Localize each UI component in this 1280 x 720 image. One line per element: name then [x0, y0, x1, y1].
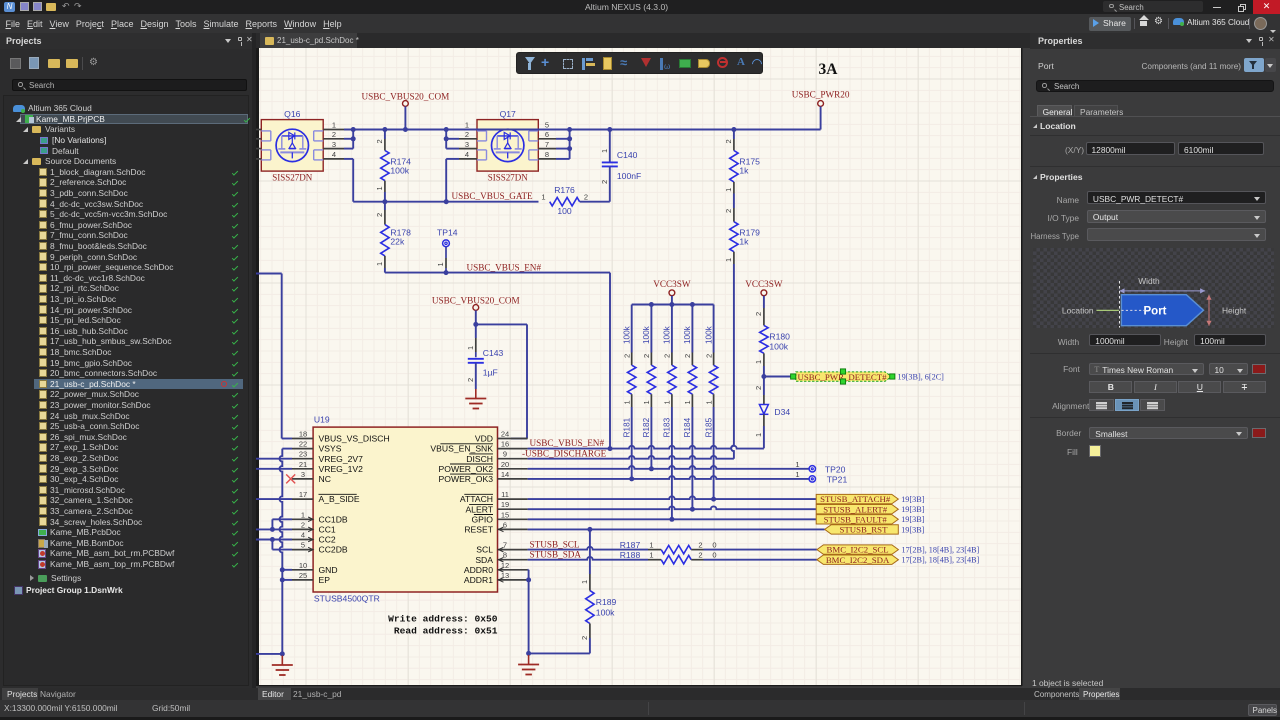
- svg-text:2: 2: [301, 520, 305, 529]
- svg-text:C140: C140: [617, 150, 638, 160]
- svg-text:VSYS: VSYS: [319, 444, 342, 454]
- right properties panel: [1030, 33, 1280, 688]
- svg-text:CC2: CC2: [319, 535, 336, 545]
- tie vertical Q17 rows1-3: [445, 130, 447, 149]
- wire USBC_VBUS_EN#: [385, 272, 610, 274]
- menu bar: [0, 14, 1280, 33]
- U19 right pins: [498, 438, 528, 440]
- svg-text:SISS27DN: SISS27DN: [488, 173, 529, 183]
- wire USBC_VBUS_GATE: [353, 201, 538, 203]
- svg-text:100k: 100k: [769, 342, 788, 352]
- svg-text:1: 1: [600, 149, 609, 153]
- svg-text:0: 0: [712, 551, 716, 560]
- svg-text:STUSB_RST: STUSB_RST: [840, 525, 889, 535]
- svg-text:100k: 100k: [683, 325, 692, 344]
- svg-text:4: 4: [332, 150, 336, 159]
- svg-text:100k: 100k: [623, 325, 632, 344]
- svg-text:5: 5: [301, 541, 305, 550]
- svg-text:SDA: SDA: [475, 555, 493, 565]
- svg-text:SISS27DN: SISS27DN: [272, 173, 313, 183]
- svg-text:VDD: VDD: [475, 434, 493, 444]
- svg-text:VCC3SW: VCC3SW: [745, 279, 783, 289]
- svg-text:RESET: RESET: [464, 525, 493, 535]
- svg-text:VCC3SW: VCC3SW: [653, 279, 691, 289]
- wire VBUS_EN# from edge to pin18: [256, 273, 282, 275]
- svg-text:1k: 1k: [739, 166, 749, 176]
- svg-text:22: 22: [299, 440, 307, 449]
- ground wire from edge: [256, 653, 282, 655]
- svg-text:USBC_VBUS20_COM: USBC_VBUS20_COM: [361, 91, 449, 101]
- resistor R180 100k: [763, 296, 765, 308]
- svg-text:23: 23: [299, 450, 307, 459]
- properties: 1 object is selected: [1032, 678, 1278, 688]
- svg-text:R180: R180: [769, 332, 790, 342]
- status bar: [0, 700, 1280, 717]
- svg-text:R183: R183: [663, 417, 672, 437]
- svg-text:2: 2: [698, 551, 702, 560]
- wire CC1 from edge: [256, 528, 292, 530]
- VSYS-GND tie vertical: [282, 448, 292, 450]
- svg-text:11: 11: [501, 490, 509, 499]
- ground symbol left: [281, 656, 283, 666]
- svg-text:GPIO: GPIO: [472, 514, 494, 524]
- resistor R182 100k: [650, 305, 652, 353]
- svg-text:R184: R184: [683, 417, 692, 437]
- svg-text:1: 1: [375, 262, 384, 266]
- svg-text:1: 1: [466, 346, 475, 350]
- svg-text:USBC_VBUS_EN#: USBC_VBUS_EN#: [467, 262, 542, 272]
- svg-text:Read address: 0x51: Read address: 0x51: [394, 625, 498, 636]
- transistor Q16: [261, 120, 323, 172]
- svg-text:1: 1: [663, 400, 672, 404]
- wires Q17 right pins to bus: [556, 138, 570, 140]
- svg-text:1: 1: [649, 551, 653, 560]
- svg-text:DISCH: DISCH: [466, 454, 493, 464]
- Q17 right pins 5-8: [538, 129, 556, 131]
- svg-text:Write address: 0x50: Write address: 0x50: [388, 613, 498, 624]
- port STUSB_FAULT#: [816, 515, 898, 524]
- svg-text:8: 8: [503, 551, 507, 560]
- svg-text:STUSB_ATTACH#: STUSB_ATTACH#: [820, 494, 891, 504]
- svg-text:20: 20: [501, 460, 509, 469]
- svg-text:1: 1: [724, 258, 733, 262]
- svg-text:D34: D34: [774, 407, 790, 417]
- svg-text:6: 6: [545, 130, 549, 139]
- svg-text:2: 2: [580, 636, 589, 640]
- svg-text:19: 19: [501, 500, 509, 509]
- port STUSB_RST: [825, 525, 899, 534]
- svg-text:SCL: SCL: [476, 545, 493, 555]
- svg-text:Height: Height: [1222, 306, 1247, 316]
- svg-text:25: 25: [299, 571, 307, 580]
- title bar: [0, 0, 1280, 14]
- svg-text:19[3B]: 19[3B]: [901, 505, 924, 514]
- resistor R183 100k: [671, 305, 673, 353]
- svg-text:10: 10: [299, 561, 307, 570]
- svg-text:USBC_VBUS_EN#: USBC_VBUS_EN#: [530, 438, 605, 448]
- svg-text:14: 14: [501, 470, 509, 479]
- svg-text:CC2DB: CC2DB: [319, 545, 348, 555]
- svg-text:21: 21: [299, 460, 307, 469]
- svg-text:STUSB_FAULT#: STUSB_FAULT#: [824, 514, 888, 524]
- Q16 right pins 1-4: [323, 129, 344, 131]
- resistor R175 1k: [731, 127, 736, 132]
- svg-text:Width: Width: [1138, 276, 1160, 286]
- svg-text:2: 2: [465, 130, 469, 139]
- svg-text:2: 2: [375, 139, 384, 143]
- power port VCC3SW left: [669, 290, 675, 296]
- ground symbol mid: [528, 655, 530, 665]
- svg-text:1: 1: [724, 188, 733, 192]
- svg-text:100k: 100k: [596, 607, 615, 617]
- port BMC_I2C2_SDA: [817, 555, 899, 564]
- resistor R185 100k: [713, 305, 715, 353]
- wire VREG_1V2 from edge: [256, 468, 292, 470]
- Q16 gate drop to VBUS_GATE: [352, 159, 354, 202]
- svg-text:1: 1: [375, 186, 384, 190]
- svg-text:1: 1: [754, 360, 763, 364]
- wire to selected port: [764, 376, 796, 378]
- svg-text:STUSB_SDA: STUSB_SDA: [530, 550, 582, 560]
- svg-text:1: 1: [301, 510, 305, 519]
- svg-text:R189: R189: [596, 597, 617, 607]
- svg-text:C143: C143: [483, 348, 504, 358]
- svg-text:Q17: Q17: [500, 109, 516, 119]
- wire R179 down to DISCH row: [731, 264, 734, 459]
- svg-text:EP: EP: [319, 575, 331, 585]
- svg-text:100k: 100k: [704, 325, 713, 344]
- svg-text:-USBC_DISCHARGE: -USBC_DISCHARGE: [522, 448, 607, 458]
- svg-text:USBC_PWR20: USBC_PWR20: [792, 89, 850, 99]
- transistor Q17: [477, 120, 538, 172]
- port STUSB_ATTACH#: [816, 494, 898, 503]
- svg-text:19[3B]: 19[3B]: [901, 495, 924, 504]
- svg-text:STUSB4500QTR: STUSB4500QTR: [314, 594, 380, 604]
- svg-text:BMC_I2C2_SCL: BMC_I2C2_SCL: [827, 545, 889, 555]
- svg-text:R182: R182: [642, 417, 651, 437]
- Q17 left pins 1-4: [459, 129, 477, 131]
- svg-text:R185: R185: [704, 417, 713, 437]
- svg-text:9: 9: [503, 450, 507, 459]
- testpoint TP14: [443, 240, 450, 247]
- wire GPIO row15: [528, 518, 817, 520]
- svg-text:24: 24: [501, 430, 509, 439]
- svg-text:2: 2: [600, 180, 609, 184]
- bank top bar: [632, 304, 714, 306]
- svg-text:USBC_VBUS_GATE: USBC_VBUS_GATE: [452, 191, 534, 201]
- editor floating toolbar: [516, 52, 763, 74]
- port preview: [1033, 248, 1274, 328]
- svg-text:2: 2: [754, 312, 763, 316]
- svg-text:1: 1: [754, 433, 763, 437]
- bottom wire to R189: [529, 652, 590, 654]
- wire row1 main USBC_VBUS20 rail: [344, 129, 821, 131]
- svg-text:1: 1: [465, 121, 469, 130]
- Q17 right tie vertical rows5-8: [569, 130, 571, 159]
- svg-text:2: 2: [466, 378, 475, 382]
- svg-text:100nF: 100nF: [617, 171, 641, 181]
- svg-text:GND: GND: [319, 565, 338, 575]
- port STUSB_ALERT#: [816, 505, 898, 514]
- capacitor C143 1uF: [475, 324, 477, 338]
- wire row3 Q17 side: [446, 148, 459, 150]
- svg-text:19[3B], 6[2C]: 19[3B], 6[2C]: [898, 373, 945, 382]
- svg-text:3: 3: [301, 470, 305, 479]
- capacitor C140 100nF: [609, 130, 611, 163]
- svg-text:2: 2: [683, 354, 692, 358]
- NC no-connect cross: [286, 474, 295, 483]
- svg-text:2: 2: [698, 540, 702, 549]
- svg-text:TP21: TP21: [827, 475, 848, 485]
- junction dots Q16 tie: [351, 127, 356, 132]
- port BMC_I2C2_SCL: [817, 545, 899, 554]
- CC1DB tie: [272, 518, 292, 520]
- wire RESET row6: [528, 528, 825, 530]
- wire SCL row7 + R187: [528, 547, 648, 550]
- svg-text:4: 4: [301, 531, 305, 540]
- svg-text:STUSB_SCL: STUSB_SCL: [530, 539, 580, 549]
- svg-text:100k: 100k: [642, 325, 651, 344]
- CC2DB tie: [271, 540, 273, 550]
- svg-text:7: 7: [503, 541, 507, 550]
- svg-text:TP14: TP14: [437, 227, 458, 237]
- svg-text:TP20: TP20: [825, 464, 846, 474]
- svg-text:2: 2: [623, 354, 632, 358]
- svg-text:17: 17: [299, 490, 307, 499]
- wire ALERT row19: [528, 506, 817, 509]
- wire row4 Q16 side: [344, 158, 353, 160]
- svg-text:1µF: 1µF: [483, 367, 498, 377]
- svg-text:R176: R176: [554, 185, 575, 195]
- svg-text:1: 1: [683, 400, 692, 404]
- svg-text:1k: 1k: [739, 237, 749, 247]
- svg-text:NC: NC: [319, 474, 331, 484]
- svg-text:CC1: CC1: [319, 525, 336, 535]
- wire POWER_OK2 row to TP20: [528, 466, 809, 469]
- testpoint TP21: [809, 476, 815, 482]
- svg-text:VREG_2V7: VREG_2V7: [319, 454, 364, 464]
- svg-text:8: 8: [545, 150, 549, 159]
- svg-text:1: 1: [623, 400, 632, 404]
- svg-text:1: 1: [436, 262, 445, 266]
- svg-text:3: 3: [332, 140, 336, 149]
- svg-text:2: 2: [584, 193, 588, 202]
- svg-text:1: 1: [541, 193, 545, 202]
- tree rows: [3, 103, 5, 114]
- svg-text:STUSB_ALERT#: STUSB_ALERT#: [823, 504, 888, 514]
- svg-text:A_B_SIDE: A_B_SIDE: [319, 494, 360, 504]
- svg-text:VBUS_EN_SNK: VBUS_EN_SNK: [430, 444, 493, 454]
- resistor R189 100k: [589, 529, 591, 574]
- wire A_B_SIDE from edge: [256, 498, 292, 500]
- svg-text:3A: 3A: [819, 61, 839, 78]
- svg-text:VREG_1V2: VREG_1V2: [319, 464, 364, 474]
- Q16 left pin stubs: [256, 129, 261, 131]
- svg-text:17[2B], 18[4B], 23[4B]: 17[2B], 18[4B], 23[4B]: [902, 556, 980, 565]
- power port USBC_VBUS20_COM top: [403, 101, 409, 107]
- svg-text:100k: 100k: [663, 325, 672, 344]
- GND/EP stubs to tie: [282, 569, 292, 571]
- svg-text:2: 2: [724, 209, 733, 213]
- svg-text:19[3B]: 19[3B]: [901, 525, 924, 534]
- svg-text:1: 1: [649, 540, 653, 549]
- wire CC2 from edge: [256, 539, 292, 541]
- resistor R178 22k: [384, 202, 386, 210]
- svg-text:Q16: Q16: [284, 109, 300, 119]
- editor tab bar: [256, 33, 1030, 48]
- resistor R181 100k: [631, 305, 633, 353]
- tie vertical Q16 rows1-3: [352, 130, 354, 149]
- svg-text:Port: Port: [1143, 306, 1166, 318]
- svg-text:1: 1: [642, 400, 651, 404]
- svg-text:100: 100: [557, 206, 572, 216]
- svg-text:2: 2: [663, 354, 672, 358]
- bottom tabs band: [0, 688, 1280, 701]
- port USBC_PWR_DETECT# (selected): [796, 372, 892, 381]
- resistor R179 1k: [733, 194, 735, 209]
- svg-text:1: 1: [580, 580, 589, 584]
- wire row4 Q17 side: [446, 158, 459, 160]
- power port USBC_VBUS20_COM mid: [473, 305, 479, 311]
- svg-text:22k: 22k: [390, 237, 405, 247]
- ADDR0/ADDR1 tie: [528, 569, 529, 571]
- testpoint TP20: [809, 466, 815, 472]
- svg-text:R188: R188: [620, 550, 641, 560]
- left projects panel: [0, 33, 252, 688]
- svg-text:ALERT: ALERT: [465, 504, 493, 514]
- svg-text:VBUS_VS_DISCH: VBUS_VS_DISCH: [319, 434, 390, 444]
- svg-text:19[3B]: 19[3B]: [901, 515, 924, 524]
- junction dots Q17 tie: [444, 127, 449, 132]
- wire VREG_2V7 from edge: [256, 458, 292, 460]
- svg-text:R187: R187: [620, 540, 641, 550]
- svg-text:2: 2: [642, 354, 651, 358]
- svg-text:2: 2: [724, 139, 733, 143]
- power port USBC_PWR20: [818, 101, 824, 107]
- wire ATTACH row11: [528, 496, 817, 499]
- svg-text:CC1DB: CC1DB: [319, 514, 348, 524]
- svg-text:ADDR0: ADDR0: [464, 565, 493, 575]
- U19 left pins: [292, 438, 313, 440]
- svg-text:1: 1: [704, 400, 713, 404]
- svg-text:Location: Location: [1062, 306, 1094, 316]
- wire row3 Q16 side: [344, 148, 353, 150]
- wire VBUS_EN_SNK row16: [528, 446, 764, 449]
- svg-text:0: 0: [712, 540, 716, 549]
- svg-text:POWER_OK3: POWER_OK3: [439, 474, 494, 484]
- svg-text:16: 16: [501, 440, 509, 449]
- svg-text:1: 1: [795, 460, 799, 469]
- svg-text:6: 6: [503, 520, 507, 529]
- svg-text:3: 3: [465, 140, 469, 149]
- diode D34: [763, 377, 765, 396]
- svg-text:ADDR1: ADDR1: [464, 575, 493, 585]
- svg-text:7: 7: [545, 140, 549, 149]
- svg-text:BMC_I2C2_SDA: BMC_I2C2_SDA: [826, 555, 890, 565]
- svg-text:R181: R181: [623, 417, 632, 437]
- svg-text:ATTACH: ATTACH: [460, 494, 493, 504]
- svg-text:2: 2: [375, 213, 384, 217]
- resistor R174 100k: [384, 130, 386, 140]
- resistor R184 100k: [691, 305, 693, 353]
- schematic canvas: [256, 48, 1030, 688]
- wire EN# down to pin16 row: [609, 273, 611, 449]
- wire DISCH row9: [528, 456, 734, 459]
- wire SDA row8 + R188: [528, 557, 648, 560]
- svg-text:2: 2: [754, 386, 763, 390]
- wire POWER_OK3 row to TP21: [528, 476, 809, 479]
- wire row2 Q16 side: [344, 138, 353, 140]
- svg-text:POWER_OK2: POWER_OK2: [439, 464, 494, 474]
- power port VCC3SW right: [761, 290, 767, 296]
- svg-text:4: 4: [465, 150, 469, 159]
- junction dots Q17 right: [567, 127, 572, 132]
- svg-text:1: 1: [795, 470, 799, 479]
- wire to U19 VDD: [476, 323, 527, 325]
- svg-text:U19: U19: [314, 414, 330, 424]
- Q17 gate drop to VBUS_GATE: [445, 159, 447, 202]
- svg-text:1: 1: [332, 121, 336, 130]
- svg-text:18: 18: [299, 430, 307, 439]
- svg-text:15: 15: [501, 510, 509, 519]
- svg-text:17[2B], 18[4B], 23[4B]: 17[2B], 18[4B], 23[4B]: [902, 546, 980, 555]
- svg-text:100k: 100k: [390, 166, 409, 176]
- svg-text:2: 2: [704, 354, 713, 358]
- wire row2 Q17 side: [446, 138, 459, 140]
- svg-text:2: 2: [332, 130, 336, 139]
- ground for C143: [475, 389, 477, 399]
- svg-text:USBC_VBUS20_COM: USBC_VBUS20_COM: [432, 295, 520, 305]
- op-amp U19 STUSB4500QTR body: [313, 427, 497, 592]
- svg-text:5: 5: [545, 121, 549, 130]
